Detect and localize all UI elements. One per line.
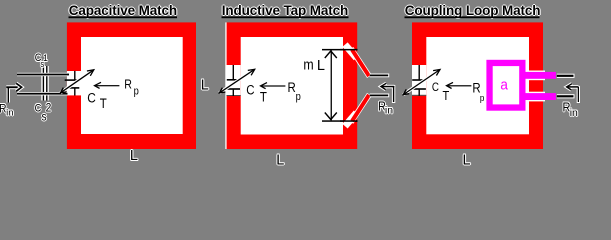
CT tuning arrow diagonal (panel 3) [403,70,440,95]
tap wire bottom diagonal (red with white halo, panel 2) [345,94,369,126]
label CT (panel 1) [87,89,107,111]
svg-text:L: L [201,77,209,93]
label Cs2 [34,101,52,125]
variable capacitor CT stubs to loop (panel 3) [419,65,420,96]
dimension arrow mL (vertical double-headed, panel 2) [325,50,337,120]
arrow pointing left to CT from Rp (panel 2) [261,83,286,89]
tap stub wire bottom re-draw (black over halo, panel 2) [340,120,358,122]
svg-text:a: a [500,77,508,94]
gap in loop L2 left border for CT [227,65,241,96]
arrow pointing left to CT from Rp (panel 1) [95,82,120,88]
svg-text:in: in [6,107,13,118]
svg-text:p: p [296,91,301,103]
label Rin (panel 2) [377,98,394,118]
capacitors Cs1 / Cs2 series plates [41,66,49,101]
label Rin (panel 1) [0,102,15,120]
svg-text:p: p [134,86,139,98]
tap port bottom wire (panel 2) [370,94,389,98]
variable capacitor CT plates (panel 1) [65,79,80,88]
svg-text:p: p [480,92,485,103]
svg-text:C: C [432,81,439,94]
input arrow Rin looking into network (panel 1) [6,83,21,102]
gap in loop L3 left border for CT [412,65,426,96]
svg-text:C: C [246,83,254,98]
variable capacitor CT stubs to loop (panel 1) [74,71,75,96]
label L below loop L3 [462,151,472,169]
output port top wire (panel 3) [557,74,575,78]
coupling loop (magenta rectangle, panel 3) [486,60,525,111]
svg-text:Coupling Loop Match: Coupling Loop Match [405,3,541,18]
label Rin (panel 3) [562,99,579,120]
wire: bottom rail from input port to CT (panel 1) [17,92,68,95]
svg-text:L: L [276,152,284,168]
wire: top rail from input port to Cs/CT (panel 1) [17,73,69,76]
svg-text:C: C [87,89,96,105]
svg-text:T: T [100,96,107,111]
loop inductor L2 (red square loop) [227,22,358,149]
label Rp (panel 1) [124,78,139,98]
bent arrow Rin looking into tap (panel 2) [381,83,396,103]
output port bottom wire (panel 3) [557,94,575,98]
loop inductor L1 (red square loop) [67,22,196,149]
CT tuning arrow diagonal (panel 1) [61,70,94,93]
white halo of bottom arm across loop border (panel 3) [528,92,545,102]
gap in loop L1 left border for CT [67,71,81,95]
dimension wire bottom (panel 2, tap lower stub crossing border) [322,120,358,122]
svg-text:in: in [570,107,578,119]
arrow pointing left to CT from Rp (panel 3) [447,82,472,88]
bent arrow Rin looking into coupling loop (panel 3) [566,84,580,103]
white fringe left of loop L2 [225,22,226,149]
label CT (panel 2) [246,83,267,105]
title: Inductive Tap Match [221,2,349,19]
svg-text:m: m [303,57,313,73]
label CT (panel 3) [432,81,450,103]
svg-text:L: L [317,58,325,74]
label mL (panel 2) [303,57,325,74]
svg-text:1: 1 [43,52,48,63]
tap stub wire top re-draw (black over halo, panel 2) [340,49,358,51]
dark edge at bottom of CT gap (panel 2) [227,95,241,96]
dark edge at bottom of CT gap (panel 3) [412,95,426,96]
dimension wire top (panel 2, tap upper stub crossing border) [322,49,358,51]
CT tuning arrow diagonal (panel 2) [219,69,254,93]
tap port top wire (panel 2) [370,74,389,78]
title: Coupling Loop Match [404,2,542,19]
svg-text:in: in [385,104,393,116]
coupling loop bottom arm (magenta, panel 3) [526,93,556,100]
svg-text:R: R [288,80,296,95]
variable capacitor CT stubs to loop (panel 2) [233,65,234,96]
coupling loop top arm (magenta, panel 3) [526,72,556,79]
tap wire top diagonal (red with white halo, panel 2) [345,45,369,77]
svg-text:2: 2 [46,102,52,115]
label Rp (panel 3) [472,81,484,103]
svg-text:L: L [463,152,471,168]
svg-text:Inductive Tap Match: Inductive Tap Match [222,3,348,18]
white halo of top arm across loop border (panel 3) [528,71,545,81]
variable capacitor CT plates (panel 3) [412,79,426,90]
svg-text:T: T [443,88,450,103]
svg-text:R: R [124,78,132,92]
loop inductor L3 (red square loop) [412,22,543,149]
svg-text:Capacitive Match: Capacitive Match [69,3,177,18]
svg-text:T: T [260,90,267,105]
label L below loop L1 [129,147,139,165]
svg-text:L: L [130,148,138,164]
label Rp (panel 2) [288,80,302,103]
title: Capacitive Match [68,2,178,19]
label L right of loop L1 [200,76,210,94]
variable capacitor CT plates (panel 2) [227,79,240,90]
label Cs1 [34,51,49,70]
label L below loop L2 [275,151,285,169]
